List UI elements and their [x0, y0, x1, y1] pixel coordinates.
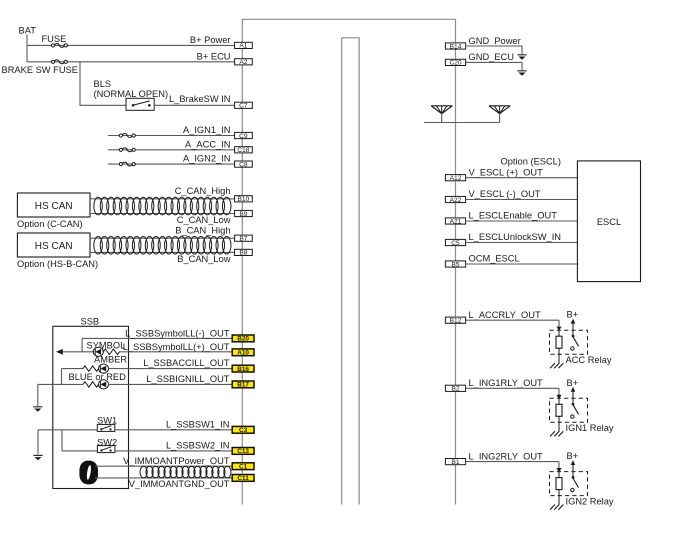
svg-text:B+ Power: B+ Power: [190, 35, 231, 45]
wire B_CAN_High: [90, 237, 235, 239]
pin A12: [445, 175, 465, 182]
antenna ANT1: [431, 106, 452, 123]
label BLS (NORMAL OPEN): [94, 79, 169, 99]
pin C11: [232, 475, 254, 483]
LED BLUE or RED: [99, 380, 109, 389]
svg-text:L_ING1RLY_OUT: L_ING1RLY_OUT: [469, 378, 544, 388]
pin A22: [445, 196, 465, 203]
net label V_ESCL (-)_OUT: [469, 189, 541, 199]
wire GND_ECU: [466, 62, 522, 69]
net label C_CAN_Low: [177, 215, 231, 225]
pin B2: [445, 385, 465, 392]
net label GND_Power: [469, 36, 521, 46]
svg-text:BRAKE SW FUSE: BRAKE SW FUSE: [2, 65, 78, 75]
svg-text:B16: B16: [237, 366, 249, 373]
svg-text:C5: C5: [451, 240, 460, 247]
svg-text:L_SSBSW2_IN: L_SSBSW2_IN: [166, 441, 230, 451]
LED AMBER: [99, 364, 109, 373]
wire symbol LED anode: [56, 349, 93, 355]
svg-text:C7: C7: [239, 103, 248, 110]
svg-text:GND_ECU: GND_ECU: [469, 52, 514, 62]
svg-text:L_SSBSW1_IN: L_SSBSW1_IN: [166, 419, 230, 429]
wire BAT vertical: [26, 35, 28, 62]
svg-text:C20: C20: [449, 60, 461, 67]
net label L_SSBSW2_IN: [166, 441, 230, 451]
svg-text:BLS: BLS: [94, 79, 112, 89]
wire V_IMMOANTPower_OUT: [95, 465, 232, 467]
wire IGN2 output: [466, 462, 562, 473]
svg-text:L_SSBACCILL_OUT: L_SSBACCILL_OUT: [143, 358, 230, 368]
block SSB box: [53, 326, 129, 488]
wire L_SSBSymbolLL(-)_OUT: [82, 338, 232, 351]
twisted pair B-CAN: [94, 237, 231, 255]
fuse FUSE (B+ Power): [51, 43, 67, 47]
svg-text:A22: A22: [450, 197, 462, 204]
label Option (ESCL): [501, 157, 561, 167]
svg-text:A_ACC_IN: A_ACC_IN: [185, 139, 230, 149]
svg-text:A_IGN2_IN: A_IGN2_IN: [183, 154, 231, 164]
wire V_IMMOANTGND_OUT: [95, 477, 232, 479]
svg-text:B+ ECU: B+ ECU: [197, 52, 231, 62]
svg-text:Option (ESCL): Option (ESCL): [501, 157, 561, 167]
svg-text:OCM_ESCL: OCM_ESCL: [469, 254, 520, 264]
net label L_SSBSymbolLL(+)_OUT: [123, 342, 230, 352]
pin C1: [232, 463, 254, 471]
svg-text:B9: B9: [239, 211, 247, 218]
wire SW2 left: [62, 450, 97, 452]
net label B_CAN_High: [175, 226, 230, 236]
svg-text:V_ESCL (+)_OUT: V_ESCL (+)_OUT: [469, 167, 544, 177]
svg-text:A12: A12: [450, 175, 462, 182]
net label A_ACC_IN: [185, 139, 230, 149]
svg-text:C_CAN_Low: C_CAN_Low: [177, 215, 231, 225]
label SYMBOL: [87, 341, 126, 351]
relay ACC switch contact: [571, 335, 579, 351]
pin C7: [235, 102, 253, 109]
pin B7: [235, 235, 253, 242]
label Option (HS-B-CAN): [17, 259, 98, 269]
net label L_SSBACCILL_OUT: [143, 358, 230, 368]
svg-text:L_ESCLUnlockSW_IN: L_ESCLUnlockSW_IN: [469, 232, 562, 242]
wire GND_Power: [466, 46, 523, 54]
resistor AMBER: [83, 366, 99, 371]
svg-text:C11: C11: [237, 475, 249, 482]
pin C20: [445, 59, 465, 66]
svg-text:BLUE or RED: BLUE or RED: [69, 372, 127, 382]
pin C8: [235, 161, 253, 168]
svg-text:A1: A1: [239, 43, 247, 50]
svg-text:L_SSBSymbolLL(-)_OUT: L_SSBSymbolLL(-)_OUT: [125, 328, 230, 338]
wire A_IGN2_IN: [108, 163, 235, 165]
svg-text:ACC Relay: ACC Relay: [566, 355, 612, 365]
svg-text:HS CAN: HS CAN: [35, 201, 73, 212]
pin A10: [232, 349, 254, 357]
pin B14: [445, 43, 465, 50]
svg-text:V_IMMOANTPower_OUT: V_IMMOANTPower_OUT: [123, 456, 230, 466]
svg-text:A_IGN1_IN: A_IGN1_IN: [183, 125, 231, 135]
svg-text:B+: B+: [567, 451, 579, 461]
pin B5: [445, 261, 465, 268]
wire B+ ECU: [27, 61, 235, 63]
switch A_ACC_IN contact: [119, 148, 135, 152]
node BAT label: [19, 26, 37, 36]
net label L_ACCRLY_OUT: [469, 310, 541, 320]
svg-text:B7: B7: [239, 236, 247, 243]
net label C_CAN_High: [175, 186, 231, 196]
relay ACC dashed box: [550, 330, 588, 354]
coil immobilizer twisted pair: [140, 466, 231, 478]
wire blue/red cathode to ground: [38, 383, 83, 385]
svg-text:Option (HS-B-CAN): Option (HS-B-CAN): [17, 259, 98, 269]
pin A2: [235, 59, 253, 66]
immobilizer antenna coil core: [79, 461, 98, 485]
svg-text:L_ING2RLY_OUT: L_ING2RLY_OUT: [469, 451, 544, 461]
net label L_BrakeSW IN: [169, 94, 230, 104]
wire L_BrakeSW IN: [154, 104, 234, 106]
label BRAKE SW FUSE: [2, 65, 78, 75]
label BLUE or RED: [69, 372, 127, 382]
wire brake switch branch: [80, 62, 126, 106]
wire SW1 left: [38, 429, 97, 431]
svg-text:FUSE: FUSE: [42, 34, 67, 44]
ground relay IGN1: [550, 416, 563, 436]
pin B1: [445, 459, 465, 466]
net label A_IGN1_IN: [183, 125, 231, 135]
wire C_CAN_Low: [90, 213, 235, 215]
net label OCM_ESCL: [469, 254, 520, 264]
svg-text:B5: B5: [451, 261, 459, 268]
svg-text:B14: B14: [450, 43, 462, 50]
wire C_CAN_High: [90, 198, 235, 200]
svg-text:(NORMAL OPEN): (NORMAL OPEN): [94, 89, 169, 99]
label SSB: [81, 316, 100, 326]
svg-text:C3: C3: [239, 427, 248, 434]
svg-text:A10: A10: [237, 350, 249, 357]
net label L_ESCLEnable_OUT: [469, 211, 558, 221]
pin B17: [232, 381, 254, 389]
svg-text:A21: A21: [450, 218, 462, 225]
resistor BLUE or RED: [83, 382, 99, 387]
label FUSE: [42, 34, 67, 44]
label AMBER: [94, 355, 127, 365]
svg-text:Option (C-CAN): Option (C-CAN): [17, 219, 83, 229]
svg-text:GND_Power: GND_Power: [469, 36, 521, 46]
antenna ANT2: [489, 106, 510, 123]
wire L_SSBSW2_IN: [115, 450, 232, 452]
ground GND_ECU: [517, 71, 526, 76]
relay IGN2 dashed box: [550, 472, 588, 496]
svg-text:B8: B8: [239, 250, 247, 257]
svg-text:L_ESCLEnable_OUT: L_ESCLEnable_OUT: [469, 211, 558, 221]
svg-text:HS CAN: HS CAN: [35, 241, 73, 252]
pin C9: [235, 132, 253, 139]
net label V_ESCL (+)_OUT: [469, 167, 544, 177]
pin B9: [235, 210, 253, 217]
svg-text:B10: B10: [238, 196, 250, 203]
svg-text:L_SSBIGNILL_OUT: L_SSBIGNILL_OUT: [146, 374, 230, 384]
svg-text:V_ESCL (-)_OUT: V_ESCL (-)_OUT: [469, 189, 541, 199]
pin A21: [445, 218, 465, 225]
switch BLS: [126, 98, 154, 110]
svg-text:B1: B1: [451, 459, 459, 466]
wire L_SSBSymbolLL(+)_OUT: [120, 351, 233, 353]
ECU inner connector slot: [342, 38, 360, 505]
label SW2: [97, 438, 117, 448]
svg-text:B+: B+: [567, 310, 579, 320]
svg-text:IGN1 Relay: IGN1 Relay: [566, 423, 614, 433]
pin B8: [235, 249, 253, 256]
svg-text:ESCL: ESCL: [597, 217, 621, 227]
svg-text:B_CAN_Low: B_CAN_Low: [177, 254, 231, 264]
pin B10: [235, 196, 253, 203]
net label B+ ECU: [197, 52, 231, 62]
ground SSB LED return: [33, 384, 42, 411]
svg-text:C18: C18: [237, 147, 249, 154]
ground SSB switch return: [33, 430, 42, 461]
net label L_ING1RLY_OUT: [469, 378, 544, 388]
relay IGN2 switch contact: [571, 476, 579, 492]
wire L_ESCLEnable_OUT: [466, 220, 578, 222]
wire B+ Power: [27, 44, 235, 46]
net label B+ Power: [190, 35, 231, 45]
net label A_IGN2_IN: [183, 154, 231, 164]
svg-text:C1: C1: [239, 464, 248, 471]
ground relay ACC: [550, 348, 563, 368]
wire OCM_ESCL: [466, 263, 578, 265]
svg-text:L_BrakeSW IN: L_BrakeSW IN: [169, 94, 230, 104]
wire B_CAN_Low: [90, 251, 235, 253]
twisted pair C-CAN: [94, 197, 231, 215]
svg-text:B20: B20: [237, 336, 249, 343]
svg-text:B12: B12: [450, 318, 462, 325]
pin A1: [235, 42, 253, 49]
svg-text:B2: B2: [451, 386, 459, 393]
wire A_ACC_IN: [108, 149, 235, 151]
LED SYMBOL: [93, 347, 103, 356]
block ESCL: [577, 161, 640, 282]
svg-text:A2: A2: [239, 59, 247, 66]
svg-text:IGN2 Relay: IGN2 Relay: [566, 496, 614, 506]
svg-text:AMBER: AMBER: [94, 355, 127, 365]
relay ACC coil: [556, 330, 562, 348]
power B+ ACC: [567, 310, 579, 336]
ground relay IGN2: [550, 490, 563, 510]
wire L_ESCLUnlockSW_IN: [466, 242, 578, 244]
block HS CAN (C-CAN): [17, 193, 90, 217]
relay IGN1 switch contact: [571, 403, 579, 419]
pin B12: [445, 317, 465, 324]
label ACC Relay: [566, 355, 612, 365]
net label L_SSBSW1_IN: [166, 419, 230, 429]
net label L_ING2RLY_OUT: [469, 451, 544, 461]
net label V_IMMOANTPower_OUT: [123, 456, 230, 466]
svg-text:C9: C9: [239, 133, 248, 140]
power B+ IGN1: [567, 378, 579, 404]
svg-text:L_ACCRLY_OUT: L_ACCRLY_OUT: [469, 310, 541, 320]
net label GND_ECU: [469, 52, 514, 62]
switch SW1: [97, 424, 115, 431]
switch A_IGN1_IN contact: [119, 134, 135, 138]
svg-text:C8: C8: [239, 161, 248, 168]
relay IGN2 coil: [556, 472, 562, 490]
resistor symbol LED: [103, 349, 119, 354]
svg-text:C13: C13: [237, 448, 249, 455]
net label L_SSBIGNILL_OUT: [146, 374, 230, 384]
label SW1: [97, 415, 117, 425]
pin B16: [232, 365, 254, 373]
svg-text:V_IMMOANTGND_OUT: V_IMMOANTGND_OUT: [129, 479, 230, 489]
wire amber cathode leg: [62, 369, 84, 385]
wire antenna bus: [424, 122, 500, 124]
net label L_SSBSymbolLL(-)_OUT: [125, 328, 230, 338]
switch SW2: [97, 446, 115, 453]
wire L_SSBACCILL_OUT: [109, 368, 233, 370]
svg-text:BAT: BAT: [19, 26, 37, 36]
pin C5: [445, 239, 465, 246]
svg-text:SSB: SSB: [81, 316, 100, 326]
pin B20: [232, 335, 254, 343]
wire IGN1 output: [466, 388, 562, 399]
wire L_SSBSW1_IN: [115, 429, 232, 431]
fuse BRAKE SW FUSE: [51, 60, 67, 64]
wire L_SSBIGNILL_OUT: [109, 383, 233, 385]
pin C13: [232, 448, 254, 456]
pin C18: [235, 147, 253, 154]
relay IGN1 coil: [556, 398, 562, 416]
label IGN2 Relay: [566, 496, 614, 506]
svg-text:B+: B+: [567, 378, 579, 388]
svg-text:L_SSBSymbolLL(+)_OUT: L_SSBSymbolLL(+)_OUT: [123, 342, 230, 352]
wire V_ESCL (-)_OUT: [466, 199, 578, 201]
power B+ IGN2: [567, 451, 579, 477]
ground GND_Power: [517, 55, 526, 60]
svg-text:B_CAN_High: B_CAN_High: [175, 226, 230, 236]
label IGN1 Relay: [566, 423, 614, 433]
pin C3: [232, 426, 254, 434]
relay IGN1 dashed box: [550, 398, 588, 422]
wire SW junction leg: [61, 430, 63, 451]
svg-text:B17: B17: [237, 382, 249, 389]
wire V_ESCL (+)_OUT: [466, 177, 578, 179]
net label L_ESCLUnlockSW_IN: [469, 232, 562, 242]
svg-text:C_CAN_High: C_CAN_High: [175, 186, 231, 196]
net label B_CAN_Low: [177, 254, 231, 264]
switch A_IGN2_IN contact: [119, 162, 135, 166]
label Option (C-CAN): [17, 219, 83, 229]
net label V_IMMOANTGND_OUT: [129, 479, 230, 489]
ECU connector outline (left/right edges and top): [242, 19, 455, 504]
wire A_IGN1_IN: [108, 135, 235, 137]
wire ACC output: [466, 320, 562, 331]
block HS CAN (HS-B-CAN): [17, 233, 90, 257]
